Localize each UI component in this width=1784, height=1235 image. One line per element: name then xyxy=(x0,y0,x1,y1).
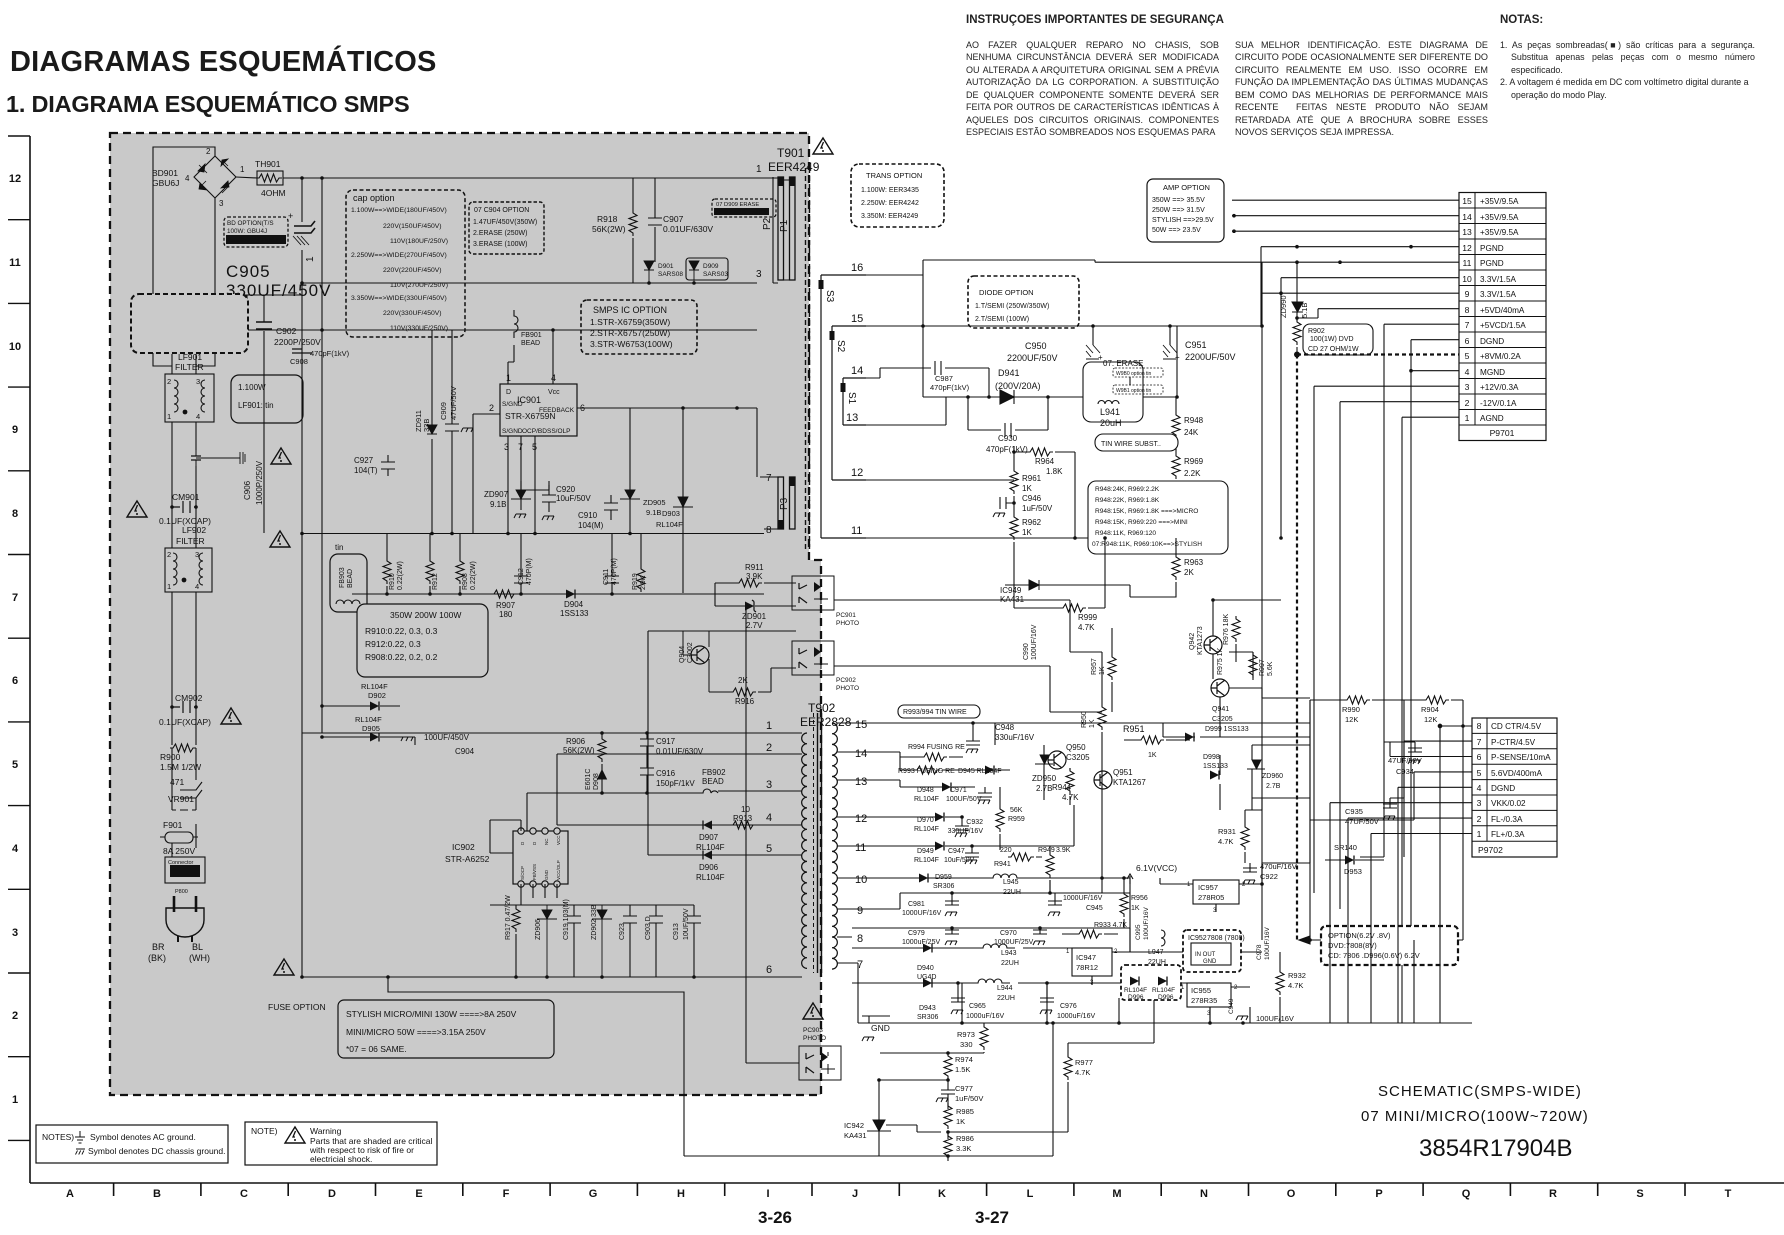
svg-text:K: K xyxy=(938,1188,946,1200)
svg-text:330uF/16V: 330uF/16V xyxy=(995,733,1035,742)
T902 secondary coil xyxy=(832,723,837,969)
svg-text:11: 11 xyxy=(851,525,862,537)
svg-text:2.STR-X6757(250W): 2.STR-X6757(250W) xyxy=(590,328,670,338)
svg-text:R948: R948 xyxy=(1184,416,1204,425)
svg-text:C970: C970 xyxy=(1000,930,1017,937)
diode D907 RL104F xyxy=(696,821,725,853)
svg-text:4: 4 xyxy=(766,812,772,824)
svg-text:24K: 24K xyxy=(1184,428,1199,437)
svg-text:Q: Q xyxy=(1462,1188,1471,1200)
svg-text:4: 4 xyxy=(185,174,190,183)
svg-text:10: 10 xyxy=(9,341,21,353)
svg-text:7: 7 xyxy=(1477,737,1482,747)
wires LF902 down xyxy=(172,592,196,745)
zener ZD907 xyxy=(484,481,531,518)
AC plug xyxy=(166,896,204,942)
svg-text:22UH: 22UH xyxy=(1001,960,1019,967)
L944 22UH xyxy=(852,979,1190,1002)
svg-text:CM902: CM902 xyxy=(175,693,203,703)
svg-text:220V(220UF/450V): 220V(220UF/450V) xyxy=(383,267,442,274)
capacitor C950 xyxy=(1007,324,1103,363)
svg-text:D970: D970 xyxy=(917,817,934,824)
svg-text:4.7K: 4.7K xyxy=(1288,981,1303,990)
svg-text:100W: GBU4J: 100W: GBU4J xyxy=(227,228,267,235)
svg-text:2K: 2K xyxy=(738,676,748,685)
svg-text:(WH): (WH) xyxy=(189,953,210,963)
svg-text:2.T/SEMI (100W): 2.T/SEMI (100W) xyxy=(975,316,1029,323)
svg-text:IC942: IC942 xyxy=(844,1121,864,1130)
svg-text:100UF/16V: 100UF/16V xyxy=(1256,1014,1294,1023)
svg-text:110V(180UF/250V): 110V(180UF/250V) xyxy=(390,238,448,245)
FUSE OPTION xyxy=(268,1000,554,1058)
svg-text:Symbol denotes DC chassis grou: Symbol denotes DC chassis ground. xyxy=(88,1146,226,1156)
svg-text:C906: C906 xyxy=(243,480,252,500)
svg-text:D945 RL104F: D945 RL104F xyxy=(958,768,1002,775)
bridge rectifier BD901 xyxy=(152,147,245,208)
paragraph column 1 xyxy=(966,39,1219,139)
svg-text:CD 27 OHM/1W: CD 27 OHM/1W xyxy=(1308,346,1359,353)
resistor R918 xyxy=(592,178,637,283)
TIN WIRE SUBST box xyxy=(1095,434,1178,451)
svg-text:R912: R912 xyxy=(432,573,439,590)
svg-text:R908:0.22, 0.2, 0.2: R908:0.22, 0.2, 0.2 xyxy=(365,652,438,662)
svg-text:C930: C930 xyxy=(998,434,1018,443)
varistor VR901 xyxy=(168,748,202,810)
svg-text:2200UF/50V: 2200UF/50V xyxy=(1007,353,1058,363)
svg-text:UG4D: UG4D xyxy=(917,974,936,981)
svg-text:2.2K: 2.2K xyxy=(1184,469,1201,478)
svg-text:350W 200W 100W: 350W 200W 100W xyxy=(390,610,461,620)
svg-text:DGND: DGND xyxy=(1491,784,1515,793)
svg-text:278R05: 278R05 xyxy=(1198,893,1224,902)
svg-text:1: 1 xyxy=(167,582,171,591)
svg-text:R908: R908 xyxy=(462,573,469,590)
svg-text:1K: 1K xyxy=(956,1117,965,1126)
svg-text:D996: D996 xyxy=(1158,994,1174,1001)
svg-text:FB902: FB902 xyxy=(702,768,726,777)
IC952 7808 dashed option xyxy=(1130,930,1262,972)
svg-text:8: 8 xyxy=(12,508,18,520)
svg-text:D909: D909 xyxy=(703,263,719,270)
shaded critical parts region xyxy=(110,133,821,1095)
svg-text:STR-A6252: STR-A6252 xyxy=(445,854,490,864)
svg-text:D996: D996 xyxy=(1128,994,1144,1001)
svg-text:100(1W) DVD: 100(1W) DVD xyxy=(1310,336,1354,343)
capacitor C981 1000UF/16V xyxy=(852,891,1130,917)
svg-text:NC: NC xyxy=(544,838,549,845)
svg-text:13: 13 xyxy=(846,412,858,424)
svg-text:RL104F: RL104F xyxy=(696,873,725,882)
P9701 wires top pins 15..11 xyxy=(923,200,1459,326)
diode D959 SR306 xyxy=(919,874,955,891)
svg-text:STYLISH MICRO/MINI 130W ====>8: STYLISH MICRO/MINI 130W ====>8A 250V xyxy=(346,1009,517,1019)
bead FB902 xyxy=(527,768,726,831)
svg-text:C965: C965 xyxy=(969,1003,986,1010)
svg-text:3-26: 3-26 xyxy=(758,1208,792,1227)
svg-text:1.8K: 1.8K xyxy=(1046,467,1063,476)
svg-text:PGND: PGND xyxy=(1480,244,1504,253)
svg-text:50W ==> 23.5V: 50W ==> 23.5V xyxy=(1152,227,1201,234)
svg-text:78R12: 78R12 xyxy=(1076,963,1098,972)
SR140 D953 xyxy=(1325,843,1384,876)
svg-text:2.7V: 2.7V xyxy=(746,621,763,630)
svg-text:3: 3 xyxy=(1465,382,1470,392)
wire pin14 xyxy=(866,368,880,378)
resistor R944 4.7K xyxy=(1052,768,1079,805)
svg-text:07 C904 OPTION: 07 C904 OPTION xyxy=(474,207,529,214)
svg-text:S/OCP: S/OCP xyxy=(520,866,525,880)
diode D941 xyxy=(923,368,1083,404)
resistor R912 xyxy=(426,534,439,595)
svg-text:R950: R950 xyxy=(1081,711,1088,728)
svg-text:1000uF/25V: 1000uF/25V xyxy=(902,939,940,946)
svg-text:R956: R956 xyxy=(1131,895,1148,902)
svg-text:R961: R961 xyxy=(1022,474,1042,483)
C979 1000uF/25V xyxy=(852,926,1130,946)
svg-text:2: 2 xyxy=(1477,814,1482,824)
zener ZD990 xyxy=(1279,262,1309,321)
svg-text:R997: R997 xyxy=(1259,659,1266,676)
T902 primary pins xyxy=(440,631,802,977)
cap option dashed box xyxy=(346,190,465,337)
svg-text:1000P/250V: 1000P/250V xyxy=(255,460,264,505)
bottom ruler letters xyxy=(66,1188,1732,1200)
svg-text:220V(330UF/450V): 220V(330UF/450V) xyxy=(383,310,442,317)
resistor R911 3.9K xyxy=(715,563,796,587)
svg-text:MGND: MGND xyxy=(1480,368,1505,377)
R941 220 / R949 3.9K xyxy=(994,846,1071,893)
svg-text:470pF(1kV): 470pF(1kV) xyxy=(310,349,350,358)
svg-text:14: 14 xyxy=(851,365,863,377)
svg-text:C923: C923 xyxy=(619,923,626,940)
svg-text:T: T xyxy=(1725,1188,1732,1200)
capacitor C946 xyxy=(993,494,1053,517)
svg-text:P-SENSE/10mA: P-SENSE/10mA xyxy=(1491,753,1551,762)
svg-text:KTA1267: KTA1267 xyxy=(1113,778,1146,787)
svg-text:10uF/50V: 10uF/50V xyxy=(556,494,591,503)
svg-text:Warning: Warning xyxy=(310,1126,342,1136)
primary bottom rail xyxy=(302,733,771,977)
wire pin12 xyxy=(866,479,1014,481)
node: C905 vertical xyxy=(244,178,322,977)
resistor R919 xyxy=(632,533,647,594)
svg-text:R907: R907 xyxy=(496,601,516,610)
svg-text:C945: C945 xyxy=(1086,905,1103,912)
svg-text:S1: S1 xyxy=(846,392,857,405)
svg-text:ZD906: ZD906 xyxy=(535,919,542,940)
svg-text:FILTER: FILTER xyxy=(176,536,205,546)
svg-text:OCP/BD: OCP/BD xyxy=(522,428,547,435)
C995 C996 rotated xyxy=(1135,906,1150,940)
wire pin11 S3 bottom xyxy=(866,537,1176,539)
label C905 330UF/450V xyxy=(226,262,331,300)
svg-text:B: B xyxy=(153,1188,161,1200)
diode D948 RL104F xyxy=(852,780,975,803)
svg-text:I: I xyxy=(766,1188,769,1200)
zener ZD905 xyxy=(620,408,666,533)
svg-text:RL104F: RL104F xyxy=(361,682,388,691)
capacitor C908 470pF xyxy=(290,349,350,366)
svg-text:*07 = 06 SAME.: *07 = 06 SAME. xyxy=(346,1044,407,1054)
svg-text:8: 8 xyxy=(1477,721,1482,731)
svg-text:D941: D941 xyxy=(998,368,1020,378)
svg-text:12: 12 xyxy=(1462,243,1472,253)
zener ZD901 2.7V xyxy=(715,600,796,630)
svg-text:C916: C916 xyxy=(656,769,676,778)
svg-text:R: R xyxy=(1549,1188,1557,1200)
svg-text:2: 2 xyxy=(167,377,171,386)
C977 1uF/50V xyxy=(936,1084,983,1109)
svg-text:4.7K: 4.7K xyxy=(1218,837,1233,846)
svg-text:R948:11K, R969:120: R948:11K, R969:120 xyxy=(1095,530,1156,537)
resistor R902 xyxy=(1293,319,1301,354)
capacitor C930 xyxy=(966,395,1050,454)
svg-text:C976: C976 xyxy=(1060,1003,1077,1010)
svg-text:47UF/50V: 47UF/50V xyxy=(449,386,458,420)
svg-text:1K: 1K xyxy=(1131,905,1140,912)
svg-text:GND: GND xyxy=(544,869,549,880)
svg-text:W9B1 option tin: W9B1 option tin xyxy=(1116,388,1152,394)
svg-text:D959: D959 xyxy=(935,874,952,881)
svg-text:T901: T901 xyxy=(777,146,805,160)
svg-text:L941: L941 xyxy=(1100,407,1120,417)
svg-text:R948:22K, R969:1.8K: R948:22K, R969:1.8K xyxy=(1095,497,1160,504)
TRANS OPTION dashed box xyxy=(851,164,944,227)
svg-text:4.7K: 4.7K xyxy=(1062,793,1079,802)
07 ERASE option tin boxes xyxy=(1103,359,1163,394)
svg-text:11: 11 xyxy=(9,257,21,269)
diode D905 RL104F xyxy=(320,704,415,745)
svg-text:330: 330 xyxy=(960,1040,973,1049)
svg-text:STR-X6759N: STR-X6759N xyxy=(505,411,556,421)
misc wires right zone xyxy=(834,600,1463,1023)
svg-text:CD CTR/4.5V: CD CTR/4.5V xyxy=(1491,722,1542,731)
svg-text:E601C: E601C xyxy=(585,769,592,790)
svg-text:1000uF/16V: 1000uF/16V xyxy=(1057,1013,1095,1020)
resistor R994 FUSING RE xyxy=(900,744,965,761)
svg-text:33B: 33B xyxy=(422,419,431,432)
resistor R900 xyxy=(160,744,201,772)
svg-text:Q941: Q941 xyxy=(1212,706,1229,713)
svg-text:C946: C946 xyxy=(1022,494,1042,503)
svg-text:14: 14 xyxy=(1462,212,1472,222)
diode D904 1SS133 xyxy=(560,590,589,619)
C945 1000UF/16V + R956 xyxy=(1048,876,1148,928)
svg-text:+35V/9.5A: +35V/9.5A xyxy=(1480,197,1519,206)
svg-text:10UF/50V: 10UF/50V xyxy=(683,908,690,940)
R957 1K xyxy=(1091,628,1116,712)
svg-text:RL104F: RL104F xyxy=(1124,987,1147,994)
T902 core xyxy=(818,713,822,973)
svg-text:10: 10 xyxy=(855,874,867,886)
svg-text:AGND: AGND xyxy=(1480,414,1504,423)
svg-text:R931: R931 xyxy=(1218,827,1236,836)
svg-text:M: M xyxy=(1112,1188,1121,1200)
svg-text:R999: R999 xyxy=(1078,613,1098,622)
svg-text:1: 1 xyxy=(766,720,772,732)
capacitor C951 xyxy=(1163,324,1236,362)
svg-text:Symbol denotes AC ground.: Symbol denotes AC ground. xyxy=(90,1132,196,1142)
svg-text:N: N xyxy=(1200,1188,1208,1200)
svg-text:50W SARS==>1F7: 50W SARS==>1F7 xyxy=(716,210,765,216)
svg-text:R990: R990 xyxy=(1342,705,1360,714)
R933 4.7K xyxy=(1068,922,1127,938)
svg-text:SMPS IC OPTION: SMPS IC OPTION xyxy=(593,305,667,315)
svg-text:6: 6 xyxy=(1465,336,1470,346)
svg-text:FB/VSS: FB/VSS xyxy=(532,864,537,880)
svg-text:C917: C917 xyxy=(656,737,676,746)
capacitor C902 xyxy=(256,310,321,352)
svg-text:R917 0.47/2W: R917 0.47/2W xyxy=(505,895,512,940)
svg-text:C913: C913 xyxy=(673,923,680,940)
C976 1000uF/16V xyxy=(1040,981,1095,1020)
svg-text:1uF/50V: 1uF/50V xyxy=(955,1094,983,1103)
svg-text:330UF/16V: 330UF/16V xyxy=(948,828,984,835)
capacitor C912 470P(M) xyxy=(514,533,533,594)
transistor Q904 C3002 xyxy=(679,631,709,692)
SMPS IC OPTION dashed box xyxy=(581,300,697,354)
svg-text:BR: BR xyxy=(152,942,165,952)
R932 4.7K xyxy=(1276,952,1306,1023)
svg-text:FB903: FB903 xyxy=(339,567,346,588)
svg-text:J: J xyxy=(852,1188,858,1200)
svg-text:C3205: C3205 xyxy=(1066,753,1090,762)
svg-text:5.6VD/400mA: 5.6VD/400mA xyxy=(1491,769,1543,778)
svg-text:C922: C922 xyxy=(1260,872,1278,881)
svg-text:R906: R906 xyxy=(566,737,586,746)
svg-text:9: 9 xyxy=(857,905,863,917)
svg-text:12: 12 xyxy=(851,467,863,479)
svg-text:PHOTO: PHOTO xyxy=(836,685,859,692)
svg-text:C950: C950 xyxy=(1025,341,1047,351)
svg-text:SR306: SR306 xyxy=(933,883,955,890)
inductor L941 xyxy=(1083,326,1179,428)
optocoupler PC903 xyxy=(799,1003,841,1080)
svg-text:2K: 2K xyxy=(1184,568,1194,577)
svg-text:R985: R985 xyxy=(956,1107,974,1116)
capacitor C948 xyxy=(966,721,1035,753)
svg-text:R944: R944 xyxy=(1052,783,1072,792)
svg-text:G: G xyxy=(589,1188,598,1200)
svg-text:LF901: tin: LF901: tin xyxy=(238,401,274,410)
svg-text:A: A xyxy=(66,1188,74,1200)
svg-text:7: 7 xyxy=(766,473,772,484)
OPTION dashed box xyxy=(1299,926,1458,965)
R993/994 TIN WIRE box xyxy=(898,705,980,718)
connector P800 xyxy=(165,824,205,895)
capacitor CM901 (X-cap) xyxy=(159,492,211,526)
svg-text:GND: GND xyxy=(1203,959,1217,965)
svg-text:13: 13 xyxy=(1462,227,1472,237)
svg-text:104(M): 104(M) xyxy=(578,521,604,530)
svg-text:C934: C934 xyxy=(1396,767,1414,776)
IC957 278R05 xyxy=(1160,880,1262,914)
svg-text:12K: 12K xyxy=(1424,715,1437,724)
svg-text:VKK/0.02: VKK/0.02 xyxy=(1491,799,1526,808)
svg-text:C932: C932 xyxy=(966,819,983,826)
svg-text:IC957: IC957 xyxy=(1198,883,1218,892)
svg-text:56K: 56K xyxy=(1010,807,1023,814)
svg-text:104(T): 104(T) xyxy=(354,466,378,475)
svg-text:C920: C920 xyxy=(556,485,576,494)
IC942 KA431 xyxy=(844,1078,948,1156)
svg-text:IC901: IC901 xyxy=(517,395,541,405)
svg-text:3.3K: 3.3K xyxy=(956,1144,971,1153)
T901 primary winding P2 P1 xyxy=(756,164,795,283)
Q942 KTA1273 xyxy=(1189,614,1240,655)
svg-text:471: 471 xyxy=(170,777,184,787)
left ruler ticks xyxy=(8,136,30,1140)
diode D909 SARS03 xyxy=(686,258,728,285)
svg-text:MINI/MICRO 50W ====>3.15A 250: MINI/MICRO 50W ====>3.15A 250V xyxy=(346,1027,486,1037)
svg-text:F901: F901 xyxy=(163,820,183,830)
R902 option box xyxy=(1303,324,1373,355)
diode D908 E601C xyxy=(585,769,607,795)
wire: bridge to transformer primary xyxy=(153,147,757,294)
svg-text:1.5K: 1.5K xyxy=(955,1065,970,1074)
07 D909 ERASE dashed box xyxy=(712,199,776,217)
svg-text:RL104F: RL104F xyxy=(914,796,939,803)
capacitor C910 xyxy=(578,495,618,530)
notas text xyxy=(1500,39,1755,101)
svg-text:R969: R969 xyxy=(1184,457,1204,466)
notas heading xyxy=(1500,14,1543,26)
svg-text:07 D909 ERASE: 07 D909 ERASE xyxy=(716,202,759,208)
capacitor C906 xyxy=(191,448,264,505)
tin FB903 BEAD box xyxy=(330,543,367,612)
svg-text:D: D xyxy=(506,389,511,396)
svg-text:R976 18K: R976 18K xyxy=(1223,614,1230,645)
svg-text:STYLISH ==>29.5V: STYLISH ==>29.5V xyxy=(1152,217,1214,224)
paragraph column 2 xyxy=(1235,39,1488,139)
svg-text:2.250W==>WIDE(270UF/450V): 2.250W==>WIDE(270UF/450V) xyxy=(351,252,447,259)
svg-text:RL104F: RL104F xyxy=(696,843,725,852)
zener ZD911 33B xyxy=(414,330,437,533)
svg-text:R919: R919 xyxy=(632,573,639,590)
svg-text:07: ERASE: 07: ERASE xyxy=(1103,359,1143,368)
R950 1K xyxy=(1081,652,1106,893)
svg-text:ZD905: ZD905 xyxy=(643,498,666,507)
IC901 STR-X6759N xyxy=(473,328,757,533)
svg-text:L: L xyxy=(1027,1188,1034,1200)
bottom vertical parts row xyxy=(505,895,701,977)
thermistor TH901 xyxy=(255,159,286,198)
svg-text:16: 16 xyxy=(851,262,863,274)
svg-text:W9B0 option tin: W9B0 option tin xyxy=(1116,371,1152,377)
svg-text:C978: C978 xyxy=(1256,944,1263,960)
svg-text:1K: 1K xyxy=(1099,666,1106,675)
svg-text:O: O xyxy=(1287,1188,1296,1200)
line filter LF901 xyxy=(165,352,214,422)
svg-text:C908: C908 xyxy=(290,357,308,366)
svg-text:2.7B: 2.7B xyxy=(1266,783,1281,790)
350W 200W 100W option box xyxy=(357,604,488,677)
D998 1SS133 xyxy=(1203,754,1228,780)
svg-text:12: 12 xyxy=(9,173,21,185)
svg-text:11: 11 xyxy=(1463,258,1472,268)
resistor R910 xyxy=(383,534,404,595)
shunt reg IC949 KA431 xyxy=(1000,580,1060,608)
C978 rotated xyxy=(1256,926,1271,960)
svg-text:TIN WIRE SUBST..: TIN WIRE SUBST.. xyxy=(1101,441,1161,448)
svg-text:+35V/9.5A: +35V/9.5A xyxy=(1480,228,1519,237)
svg-text:0.01UF/630V: 0.01UF/630V xyxy=(656,747,704,756)
diode D903 RL104F xyxy=(656,406,693,593)
svg-text:0.01UF/630V: 0.01UF/630V xyxy=(663,224,713,234)
bottom-right sheet title xyxy=(1361,1083,1589,1125)
svg-text:P9701: P9701 xyxy=(1490,428,1515,438)
svg-text:R977: R977 xyxy=(1075,1058,1093,1067)
